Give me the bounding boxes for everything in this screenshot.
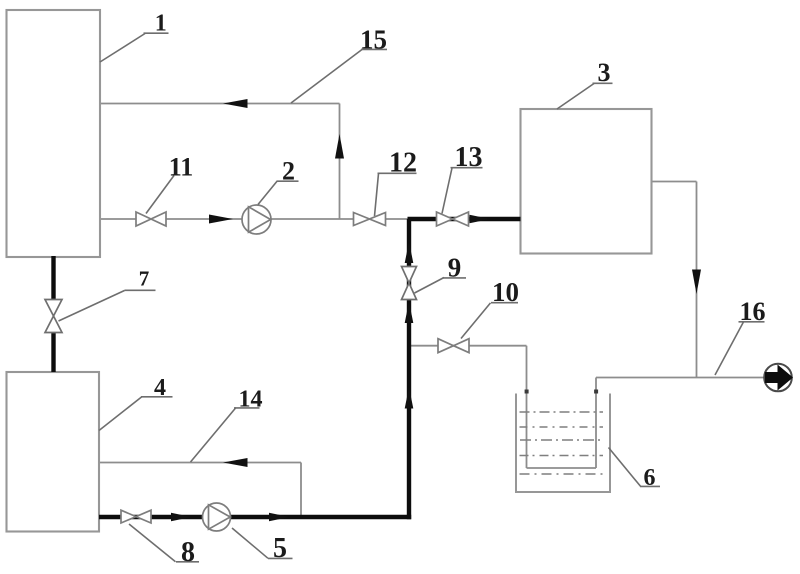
label 4 leader [99,397,173,431]
svg-text:16: 16 [740,297,766,326]
label 11 leader [146,176,174,214]
label 6 leader [609,448,661,487]
label 15 leader [291,49,387,103]
label 13 leader [442,168,483,214]
arrow on riser above valve 9 pointing up [405,242,414,264]
label 1 leader [100,33,169,62]
wire: dip pipe right into tank 6 [595,378,597,469]
box 4 [7,372,100,532]
svg-text:1: 1 [155,11,167,37]
svg-text:15: 15 [360,24,387,54]
wire: outlet header to arrow 16 [596,377,764,379]
wire: thick line valve 7 to box 4 top [51,333,55,373]
svg-text:2: 2 [282,157,295,186]
label 9 leader [415,278,467,294]
outlet symbol 16: circle with solid arrow [764,364,793,392]
label 10 leader [461,303,518,339]
svg-text:4: 4 [154,375,166,401]
arrow on riser lower pointing up [405,387,414,409]
wire: main supply line y=219 from box 1 [100,218,408,220]
arrow on main line pointing right [209,215,233,224]
arrow on line 15 riser pointing up [335,134,344,159]
wire: line 14 vertical drop [300,463,302,518]
arrow on riser below valve 9 pointing up [405,302,414,324]
valve 7 (vertical) [45,300,62,333]
wire: dip pipe left into tank 6 [526,346,528,468]
svg-text:5: 5 [273,533,287,564]
wire: line 15 horizontal return to box 1 [100,103,340,105]
svg-text:7: 7 [139,267,150,291]
label 2 leader [258,181,299,204]
node: tank rim junction right [594,390,598,394]
arrow after valve 8 pointing right [171,513,192,522]
valve 12 [354,213,386,226]
label 14 leader [191,408,260,463]
svg-text:13: 13 [455,142,483,173]
box 3 [521,109,652,254]
wire: box 3 outlet downcomer [696,182,698,378]
label 8 leader [129,524,199,562]
label 5 leader [232,528,293,558]
valve 9 (vertical) [402,267,417,300]
svg-text:14: 14 [239,387,263,413]
valve 10 [438,339,469,353]
wire: line 14 horizontal return to box 4 [99,462,301,464]
svg-text:9: 9 [448,253,462,283]
arrow on line 15 pointing left [223,99,248,108]
svg-text:8: 8 [181,537,195,568]
wire: thick line box 1 bottom to valve 7 [51,256,55,300]
svg-text:10: 10 [492,277,519,307]
wire: thick feed line into box 3 [408,217,521,221]
arrow after valve 13 pointing right [470,215,491,224]
pump 2 [242,205,271,234]
node: tank rim junction left [525,390,529,394]
arrow on box 3 downcomer pointing down [692,270,701,295]
arrow on line 14 pointing left [223,458,248,467]
valve 8 [121,510,151,523]
arrow after pump 5 pointing right [269,513,290,522]
wire: thick bottom main line pump 5 to riser elbow [231,515,412,519]
label 3 leader [557,83,613,109]
svg-text:6: 6 [644,465,656,491]
box 1 [7,10,101,257]
wire: inner vessel bottom [527,467,597,469]
wire: thick bottom main line from box 4 [99,515,203,519]
label 12 leader [375,173,417,216]
wire: branch through valve 10 [409,345,527,347]
pump 5 [203,503,231,531]
wire: box 3 outlet horizontal [652,181,697,183]
valve 11 [136,212,166,226]
valve 13 [437,212,469,226]
tank 6 liquid dash-dot level lines [520,412,605,474]
svg-text:3: 3 [598,58,611,87]
label 7 leader [59,290,156,321]
svg-text:11: 11 [169,153,194,182]
label 16 leader [715,322,765,375]
wire: line 15 vertical riser from main line [339,104,341,220]
svg-text:12: 12 [389,148,417,179]
tank 6 outer container [516,394,610,493]
wire: thick riser [407,219,411,519]
